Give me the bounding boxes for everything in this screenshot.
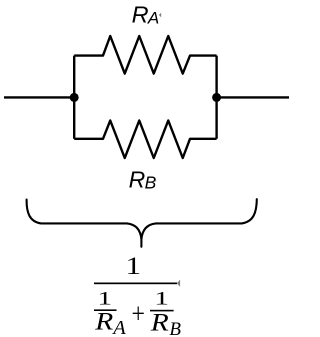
sub fraction bar right xyxy=(150,310,174,312)
denominator RB xyxy=(150,309,169,336)
svg-text:1: 1 xyxy=(97,288,112,309)
caret after RB xyxy=(155,180,156,182)
plus sign xyxy=(132,298,145,329)
node A (left junction dot) xyxy=(70,93,79,102)
denominator RA xyxy=(94,308,113,335)
wire left vertical xyxy=(73,56,75,139)
fraction bar main xyxy=(94,283,177,285)
sub fraction bar left xyxy=(94,309,117,311)
svg-text:1: 1 xyxy=(126,253,142,280)
resistor RB (bottom) xyxy=(74,121,216,159)
sub fraction 1/RB : numerator 1 xyxy=(154,288,169,309)
resistor RA (top) xyxy=(74,36,216,74)
svg-text:A: A xyxy=(111,317,126,337)
wire right vertical xyxy=(215,56,217,139)
wire right lead xyxy=(217,96,289,98)
svg-text:B: B xyxy=(169,319,181,337)
svg-text:1: 1 xyxy=(154,288,169,309)
caret after RA xyxy=(159,13,161,18)
node B (right junction dot) xyxy=(212,93,221,102)
caret at bar end xyxy=(177,280,180,287)
svg-text:+: + xyxy=(132,298,145,329)
svg-text:A: A xyxy=(147,9,159,28)
wire left lead xyxy=(4,96,74,98)
formula numerator 1 xyxy=(126,253,142,280)
svg-text:R: R xyxy=(129,166,146,192)
brace (underbrace) xyxy=(27,199,257,247)
svg-text:R: R xyxy=(94,308,113,335)
svg-text:R: R xyxy=(132,2,149,28)
svg-text:B: B xyxy=(145,172,157,192)
sub fraction 1/RA : numerator 1 xyxy=(97,288,112,309)
svg-text:R: R xyxy=(150,309,169,336)
